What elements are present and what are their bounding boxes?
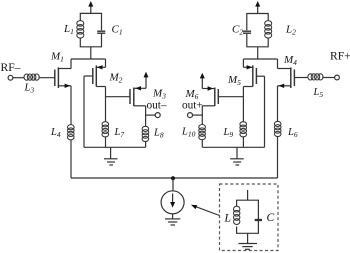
inductor L6 — [274, 121, 281, 136]
transistor M1 — [55, 59, 71, 88]
inductor L8 — [142, 126, 149, 141]
wire M5 drain to M6 gate — [218, 96, 243, 98]
wire M4 source down — [277, 86, 279, 122]
tank rectangle right (C2 L2) — [247, 14, 268, 47]
svg-text:C: C — [267, 212, 275, 224]
wire L3 to M1 gate — [39, 77, 55, 79]
svg-text:L2: L2 — [285, 23, 296, 36]
svg-text:L: L — [224, 212, 231, 224]
capacitor C inner — [255, 219, 262, 221]
wire left drain node — [71, 58, 106, 60]
transistor M4 — [278, 59, 295, 88]
wire to out- terminal — [146, 114, 156, 116]
inner tank rectangle (L C) — [237, 200, 259, 233]
tank rectangle left (L1 C1) — [80, 13, 101, 46]
ground inner tank — [239, 233, 258, 249]
wire tank2 to node — [257, 47, 259, 59]
svg-text:C2: C2 — [232, 23, 243, 36]
ground bus left — [84, 146, 146, 148]
current source I tail — [161, 178, 184, 219]
power arrow VDD M6 — [200, 73, 205, 89]
dashed box — [220, 184, 279, 251]
svg-text:L3: L3 — [24, 83, 35, 95]
svg-text:L8: L8 — [153, 127, 164, 139]
wire L7 to ground bus — [105, 136, 107, 147]
ground bus right — [202, 146, 264, 148]
inductor L3 — [24, 74, 39, 80]
transistor M3 — [130, 86, 146, 106]
svg-text:C1: C1 — [112, 23, 123, 36]
inductor L1 — [77, 21, 84, 38]
tail bus wire — [71, 177, 278, 179]
wire L8 to ground bus — [145, 141, 147, 147]
wire M5 gate to ground bus — [264, 76, 266, 147]
wire M2 drain down to L7 — [105, 97, 107, 122]
junction node tail — [171, 176, 175, 180]
terminal out+ — [188, 113, 193, 118]
svg-text:M5: M5 — [227, 74, 241, 87]
svg-text:L5: L5 — [313, 87, 324, 99]
transistor M5 — [243, 59, 264, 97]
wire M2 gate to ground bus — [83, 76, 85, 147]
transistor M6 — [202, 86, 218, 106]
inductor L9 — [240, 122, 247, 137]
inductor L10 — [199, 125, 206, 140]
wire L4 to tail bus — [70, 140, 72, 179]
capacitor C2 — [243, 31, 251, 33]
svg-text:L9: L9 — [223, 127, 234, 139]
callout arrow to current source — [191, 205, 220, 216]
power arrow VDD right tank — [255, 1, 260, 14]
svg-text:L1: L1 — [63, 23, 74, 36]
inductor L2 — [265, 21, 272, 38]
svg-text:L4: L4 — [50, 127, 61, 139]
wire L5 to RF+ — [322, 77, 334, 79]
wire M2 drain to M3 gate — [106, 96, 131, 98]
wire M4 gate to L5 — [294, 77, 308, 79]
inductor L4 — [68, 125, 75, 140]
wire right drain node — [243, 58, 277, 60]
wire M6 source down — [201, 106, 203, 125]
terminal RF- — [8, 75, 13, 80]
wire M3 source down — [145, 106, 147, 127]
svg-text:M2: M2 — [109, 72, 123, 85]
inductor L5 — [308, 74, 323, 80]
svg-text:M4: M4 — [283, 54, 297, 67]
wire RF- to L3 — [13, 77, 25, 79]
svg-text:RF–: RF– — [1, 61, 21, 74]
wire L10 to ground bus — [201, 139, 203, 147]
ground left — [104, 147, 118, 165]
inductor L inner — [234, 206, 240, 224]
svg-text:out–: out– — [147, 99, 167, 111]
svg-text:L6: L6 — [287, 127, 298, 139]
terminal RF+ — [335, 75, 340, 80]
terminal out- — [155, 113, 160, 118]
wire L6 to tail bus — [277, 136, 279, 178]
wire tank1 to node — [90, 47, 92, 59]
svg-text:L10: L10 — [181, 126, 196, 138]
stub inner tank — [247, 190, 249, 200]
ground right — [230, 147, 244, 165]
wire L9 to ground bus — [242, 136, 244, 147]
wire to out+ terminal — [193, 114, 203, 116]
transistor M2 — [84, 59, 106, 97]
svg-text:out+: out+ — [182, 100, 203, 112]
svg-text:RF+: RF+ — [330, 49, 350, 62]
svg-text:M1: M1 — [50, 51, 64, 64]
wire M1 source down — [70, 86, 72, 125]
inductor L7 — [102, 122, 109, 137]
capacitor C1 — [97, 31, 105, 33]
svg-text:L7: L7 — [114, 127, 125, 139]
wire M5 drain down to L9 — [242, 97, 244, 122]
ground current source — [165, 219, 180, 225]
power arrow VDD left tank — [88, 1, 93, 14]
power arrow VDD M3 — [144, 72, 149, 89]
